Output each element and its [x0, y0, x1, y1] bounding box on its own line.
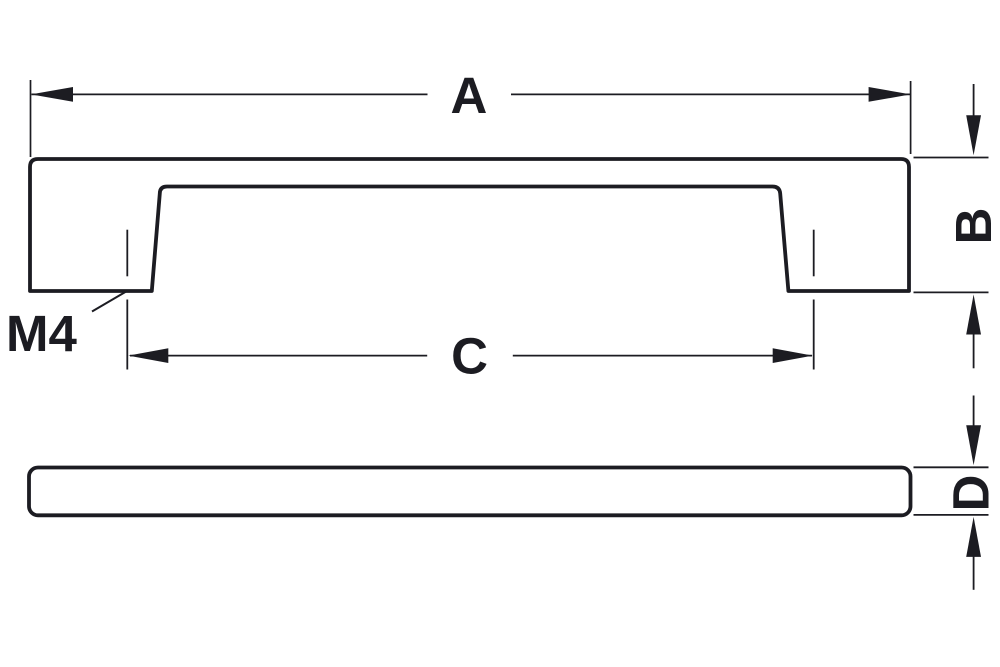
left hole centerline upper segment	[126, 230, 128, 277]
dimension B lower shaft	[973, 331, 975, 368]
svg-text:C: C	[451, 328, 488, 385]
dimension C line right segment	[513, 355, 812, 357]
dimension D top tick	[914, 466, 989, 468]
svg-text:B: B	[945, 208, 1000, 245]
dimension B lower arrowhead (up)	[966, 295, 981, 335]
svg-text:D: D	[942, 475, 999, 512]
dimension A right extension line	[910, 81, 912, 154]
dimension A right arrowhead	[869, 87, 911, 102]
dimension D lower shaft	[973, 553, 975, 590]
dimension C left arrowhead	[128, 348, 168, 363]
dimension B upper shaft	[973, 84, 975, 118]
dimension A left extension line	[30, 80, 32, 157]
dimension C line left segment	[130, 355, 427, 357]
svg-text:A: A	[450, 67, 487, 124]
dimension B top tick	[914, 157, 989, 159]
dimension A left arrowhead	[31, 87, 73, 102]
right hole centerline upper segment	[813, 230, 815, 277]
right hole centerline lower segment	[813, 300, 815, 370]
M4 leader line	[92, 291, 127, 311]
svg-text:M4: M4	[6, 305, 77, 362]
dimension D bottom tick	[914, 514, 989, 516]
handle front view outline	[30, 159, 909, 291]
dimension D upper shaft	[973, 396, 975, 430]
left hole centerline lower segment	[126, 300, 128, 370]
dimension A line left segment	[32, 93, 428, 95]
dimension B bottom tick	[914, 291, 989, 293]
dimension C right arrowhead	[773, 348, 813, 363]
dimension D lower arrowhead (up)	[966, 517, 981, 557]
dimension A line right segment	[511, 93, 910, 95]
dimension D upper arrowhead (down)	[966, 425, 981, 465]
handle side view bar	[29, 468, 911, 516]
dimension B upper arrowhead (down)	[966, 115, 981, 155]
